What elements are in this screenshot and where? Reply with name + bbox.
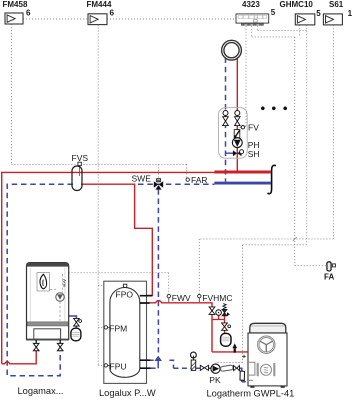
svg-text:FA: FA xyxy=(324,272,334,281)
wire flow tank to heat pump with sensors FWV/FVHMC xyxy=(149,301,248,352)
wire sensor bus FVS/SWE/FAR xyxy=(11,164,186,178)
svg-text:FWV: FWV xyxy=(172,293,191,303)
wire 4323 pin1 down to sensor FV xyxy=(244,26,246,127)
wire return: SWE to blue header xyxy=(138,183,214,185)
wire FM444 down to tank sensors FPO/FPM/FPU xyxy=(98,25,123,366)
boiler internal wiring xyxy=(50,274,63,321)
wire GHMC10 to outdoor sensor FA xyxy=(295,25,327,266)
wire boiler to expansion vessel xyxy=(69,316,77,328)
wire S61 to sensor FVHMC xyxy=(199,25,333,294)
wire 4323 pin3 to GHMC10 xyxy=(258,26,307,31)
svg-text:FPM: FPM xyxy=(109,323,127,333)
svg-text:FM458: FM458 xyxy=(3,0,28,9)
pressure gauge xyxy=(216,310,222,316)
flexible hose xyxy=(220,365,233,372)
mixing valve SH xyxy=(233,150,237,156)
heat pump Logatherm body xyxy=(248,333,287,386)
wire SWE valve down to tank bottom xyxy=(157,189,159,352)
svg-text:FVS: FVS xyxy=(72,153,89,163)
wire heating circuit return down to blue header xyxy=(225,58,227,182)
flexible connection heat pump xyxy=(240,371,245,380)
svg-text:FM444: FM444 xyxy=(87,0,112,9)
pump PK xyxy=(211,364,220,373)
wire safety group tee xyxy=(212,310,225,334)
svg-text:6: 6 xyxy=(110,9,115,18)
wire FM458 down to sensor bus xyxy=(10,24,12,164)
sensor FPO xyxy=(123,284,126,287)
wire hop at S61/GHMC10 crossing xyxy=(293,237,297,241)
drain arrow xyxy=(232,343,237,348)
sensor FVHMC xyxy=(198,294,201,297)
svg-text:SWE: SWE xyxy=(132,174,152,184)
wire tank upper rear stub to heat pump return via PK xyxy=(151,360,192,368)
wire GHMC10 down to heat pump and pump PK xyxy=(216,25,307,364)
svg-text:6: 6 xyxy=(26,9,31,18)
blue return header xyxy=(214,182,270,185)
red flow header xyxy=(214,171,270,174)
wire return main: blue dashed from corner to boiler return valve xyxy=(7,184,73,376)
check valve xyxy=(234,130,240,138)
heat pump top cap xyxy=(250,323,286,333)
svg-text:SH: SH xyxy=(248,149,260,159)
sensor FV xyxy=(240,126,242,128)
tank stubs xyxy=(140,296,153,369)
svg-text:5: 5 xyxy=(316,9,321,18)
svg-text:FPO: FPO xyxy=(116,289,134,299)
pump PH xyxy=(232,138,242,148)
wire heating circuit flow down to red header xyxy=(236,58,238,171)
expansion shut-off valve xyxy=(222,323,228,330)
wire 4323 pin2 to GHMC10 xyxy=(252,26,295,37)
plus mark xyxy=(242,355,245,358)
mixing group box xyxy=(219,108,248,159)
svg-text:Logamax...: Logamax... xyxy=(18,386,64,396)
heat pump expansion vessel xyxy=(221,333,231,346)
safety valve xyxy=(223,304,226,309)
svg-text:FPU: FPU xyxy=(110,361,127,371)
heating circuit circle xyxy=(222,40,242,60)
ball valve w/ thermometer (flow) xyxy=(235,111,240,116)
svg-text:GHMC10: GHMC10 xyxy=(280,0,314,9)
burner flame chamber xyxy=(37,273,50,292)
boiler expansion valve xyxy=(74,318,80,326)
boiler pump xyxy=(56,293,64,301)
sensor FAR xyxy=(186,178,189,181)
heat pump inner compartment xyxy=(248,362,255,380)
wire flow main: red from top corner down to boiler flow valve xyxy=(2,172,215,363)
svg-text:5: 5 xyxy=(271,8,276,17)
strainer with thermometer xyxy=(191,352,197,358)
boiler return shut-off valve xyxy=(57,343,63,350)
svg-text:1: 1 xyxy=(348,9,352,18)
boiler connection stubs xyxy=(36,340,60,344)
svg-text:Logalux P...W: Logalux P...W xyxy=(99,388,156,398)
burner drawer xyxy=(34,329,61,340)
boiler expansion vessel xyxy=(71,328,81,341)
svg-text:4323: 4323 xyxy=(242,0,260,9)
buffer tank Logalux outer casing xyxy=(104,281,147,383)
buffer tank vessel xyxy=(110,288,140,378)
outdoor sensor FA xyxy=(327,262,331,271)
more circuits dots xyxy=(261,107,265,111)
shut-off valve PK line xyxy=(200,365,208,370)
sensor FPM xyxy=(104,326,107,329)
sensor FPU xyxy=(104,364,107,367)
svg-text:FVHMC: FVHMC xyxy=(202,293,232,303)
check valve PK line xyxy=(234,366,240,371)
svg-text:FV: FV xyxy=(248,123,259,133)
wire bypass into valve SH xyxy=(226,152,234,154)
svg-text:Logatherm GWPL-41: Logatherm GWPL-41 xyxy=(207,389,295,399)
wire flow FVS to buffer tank top xyxy=(81,184,152,295)
heat exchanger xyxy=(257,364,259,375)
wire boiler to sensor FWV xyxy=(63,273,169,295)
boiler air vent xyxy=(63,279,65,283)
boiler Logamax shell xyxy=(27,263,69,340)
continuation brace xyxy=(267,165,276,193)
svg-text:S61: S61 xyxy=(329,0,344,9)
fan xyxy=(258,336,275,353)
boiler base trim xyxy=(27,322,68,326)
wire bus from FM458/FM444 to controller 4323 xyxy=(23,18,236,20)
svg-text:PK: PK xyxy=(209,375,221,385)
flow direction arrow up into SWE line xyxy=(157,359,159,369)
boiler flow shut-off valve xyxy=(33,343,39,350)
ball valve w/ thermometer (return) xyxy=(223,111,228,116)
wire tank lower rear stub to SWE line xyxy=(147,367,155,369)
sensor FWV xyxy=(167,294,170,297)
svg-text:FAR: FAR xyxy=(191,175,208,185)
safety group shut-off valve xyxy=(209,307,215,315)
